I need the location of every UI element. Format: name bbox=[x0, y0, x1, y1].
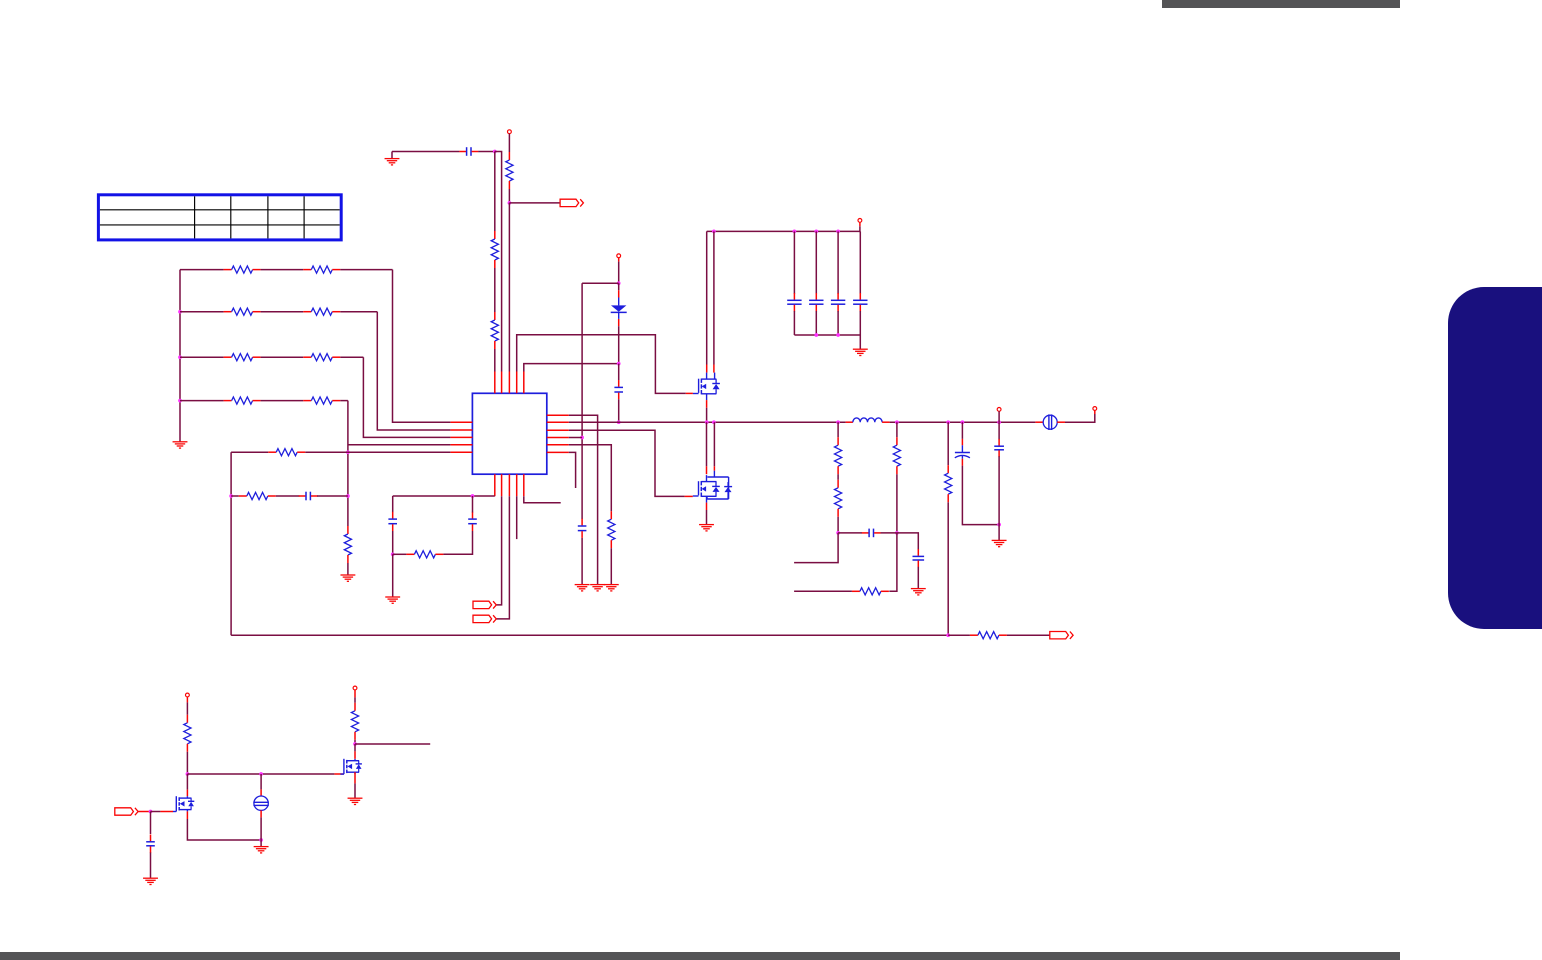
junction bbox=[814, 230, 818, 234]
lead bbox=[618, 258, 620, 262]
off-page connector bbox=[560, 199, 583, 206]
capacitor C1 bbox=[459, 147, 478, 156]
resistor R13a bbox=[224, 397, 261, 404]
current source CS1 bbox=[253, 789, 268, 817]
wire bbox=[582, 282, 619, 284]
wire bbox=[393, 495, 495, 497]
junction bbox=[617, 281, 621, 285]
capacitor C10 bbox=[853, 293, 867, 312]
wire bbox=[998, 411, 1000, 422]
junction bbox=[580, 436, 584, 440]
lead bbox=[685, 495, 693, 497]
wire bbox=[859, 335, 861, 349]
pin bbox=[450, 429, 472, 431]
wire bbox=[1065, 414, 1095, 422]
lead bbox=[1057, 421, 1065, 423]
wire bbox=[392, 554, 394, 597]
wire bbox=[948, 634, 970, 636]
wire bbox=[340, 269, 392, 271]
power terminal bbox=[617, 254, 621, 258]
IC U1 bbox=[472, 393, 546, 474]
wire bbox=[305, 451, 348, 453]
junction bbox=[346, 494, 350, 498]
junction bbox=[946, 420, 950, 424]
wire bbox=[495, 152, 502, 372]
capacitor C11 bbox=[862, 529, 881, 538]
wire bbox=[508, 203, 510, 372]
capacitor C2 bbox=[614, 380, 623, 399]
ground bbox=[992, 540, 1007, 546]
ground bbox=[143, 878, 158, 884]
lead bbox=[859, 222, 861, 226]
lead bbox=[713, 466, 715, 470]
wire bbox=[180, 400, 224, 402]
lead bbox=[706, 503, 708, 510]
capacitor C5 bbox=[388, 512, 397, 531]
ground bbox=[348, 798, 363, 804]
junction bbox=[617, 362, 621, 366]
resistor R11a bbox=[224, 308, 261, 315]
wire bbox=[859, 231, 861, 293]
wire bbox=[896, 474, 898, 533]
top gray bar bbox=[1162, 0, 1400, 8]
lead bbox=[882, 421, 890, 423]
junction bbox=[186, 772, 190, 776]
output terminal bbox=[997, 408, 1001, 412]
wire stub bbox=[524, 496, 561, 503]
resistor R22 bbox=[852, 588, 889, 595]
wire bbox=[340, 311, 377, 313]
junction bbox=[961, 420, 965, 424]
junction bbox=[836, 420, 840, 424]
wire bbox=[569, 437, 582, 439]
wire bbox=[261, 356, 304, 358]
junction bbox=[793, 230, 797, 234]
revision table bbox=[98, 195, 341, 240]
resistor R14 bbox=[344, 526, 351, 563]
pin bbox=[516, 372, 518, 394]
pin bbox=[494, 474, 496, 496]
wire bbox=[713, 231, 715, 364]
junction bbox=[149, 810, 153, 814]
lead bbox=[354, 690, 356, 697]
wire bbox=[494, 349, 496, 372]
bottom gray bar bbox=[0, 952, 1400, 960]
wire bbox=[889, 533, 897, 591]
junction bbox=[712, 230, 716, 234]
ground bbox=[604, 585, 619, 591]
ground bbox=[340, 575, 355, 581]
ground bbox=[575, 585, 590, 591]
wire bbox=[793, 231, 795, 293]
wire bbox=[837, 422, 839, 437]
diode D1 bbox=[611, 298, 627, 319]
pin bbox=[547, 414, 569, 416]
capacitor C12 bbox=[913, 549, 925, 567]
off-page connector bbox=[473, 601, 496, 608]
capacitor C8 bbox=[809, 293, 823, 312]
wire bbox=[961, 422, 963, 439]
ground bbox=[173, 442, 188, 448]
wire bbox=[276, 495, 300, 497]
junction bbox=[346, 450, 350, 454]
junction bbox=[178, 355, 182, 359]
wire bbox=[231, 451, 268, 453]
wire rail bbox=[707, 230, 861, 232]
wire bbox=[837, 311, 839, 335]
lead bbox=[186, 811, 188, 819]
resistor R15 bbox=[268, 449, 305, 456]
pin bbox=[501, 474, 503, 496]
ground bbox=[699, 525, 714, 531]
inductor L1 bbox=[853, 418, 882, 422]
pin bbox=[523, 474, 525, 496]
wire bbox=[838, 532, 862, 534]
junction bbox=[814, 333, 818, 337]
resistor R16 bbox=[239, 492, 276, 499]
lead bbox=[846, 421, 853, 423]
wire bbox=[260, 840, 262, 847]
resistor R11b bbox=[303, 308, 340, 315]
input connector bbox=[115, 808, 138, 815]
wire bbox=[706, 231, 708, 364]
wire rail bbox=[890, 421, 1036, 423]
wire bbox=[150, 853, 152, 879]
pin bbox=[450, 436, 472, 438]
wire bbox=[497, 496, 502, 605]
wire bbox=[363, 357, 450, 437]
junction bbox=[836, 333, 840, 337]
wire bus bbox=[179, 270, 181, 442]
wire bbox=[837, 474, 839, 480]
wire bus bbox=[794, 334, 860, 336]
resistor R12b bbox=[303, 354, 340, 361]
fuse F1 bbox=[1043, 414, 1057, 430]
lead bbox=[618, 319, 620, 326]
wire bbox=[472, 496, 474, 512]
lead bbox=[1035, 421, 1043, 423]
wire bbox=[569, 415, 598, 584]
capacitor C14 bbox=[994, 439, 1004, 457]
capacitor C15 bbox=[146, 835, 155, 854]
pin bbox=[547, 437, 569, 439]
wire bbox=[186, 702, 188, 714]
wire bbox=[706, 422, 708, 466]
wire bbox=[815, 311, 817, 335]
capacitor C4 bbox=[299, 492, 318, 501]
junction bbox=[353, 742, 357, 746]
lead bbox=[618, 290, 620, 297]
resistor R21 bbox=[893, 437, 900, 474]
wire bbox=[494, 268, 496, 312]
lead bbox=[713, 365, 715, 373]
power terminal bbox=[508, 130, 512, 134]
ground bbox=[254, 847, 269, 853]
junction bbox=[836, 230, 840, 234]
wire stub bbox=[516, 496, 518, 539]
pin bbox=[450, 421, 472, 423]
wire bbox=[261, 400, 304, 402]
transistor Q1 bbox=[693, 373, 720, 401]
wire bbox=[151, 811, 161, 813]
off-page connector bbox=[473, 615, 496, 622]
wire bbox=[260, 774, 262, 789]
pin bbox=[508, 372, 510, 394]
resistor R23 bbox=[945, 465, 952, 502]
resistor R20 bbox=[835, 480, 842, 517]
wire bbox=[443, 531, 472, 554]
wire bbox=[478, 151, 495, 153]
wire bbox=[393, 553, 407, 555]
wire bbox=[998, 422, 1000, 439]
wire rail bbox=[231, 634, 948, 636]
ground bbox=[853, 349, 868, 355]
wire bbox=[610, 548, 612, 584]
wire bbox=[180, 311, 224, 313]
resistor R10b bbox=[303, 266, 340, 273]
wire bbox=[392, 151, 459, 153]
junction bbox=[895, 420, 899, 424]
wire rail bbox=[569, 421, 846, 423]
power terminal bbox=[353, 686, 357, 690]
pin bbox=[547, 421, 569, 423]
wire bbox=[962, 466, 999, 525]
resistor R10a bbox=[224, 266, 261, 273]
wire bbox=[260, 817, 262, 840]
capacitor C7 bbox=[787, 293, 801, 312]
junction bbox=[471, 494, 475, 498]
resistor R25 bbox=[184, 715, 191, 752]
wire bbox=[509, 202, 560, 204]
wire bbox=[377, 312, 450, 430]
junction bbox=[997, 523, 1001, 527]
wire stub bbox=[569, 452, 576, 488]
junction bbox=[508, 201, 512, 205]
lead bbox=[686, 392, 693, 394]
lead bbox=[706, 466, 708, 474]
wire bbox=[340, 356, 363, 358]
junction bbox=[391, 552, 395, 556]
wire bbox=[618, 326, 620, 363]
lead bbox=[160, 811, 173, 813]
wire bbox=[231, 495, 239, 497]
wire bbox=[230, 452, 232, 635]
wire bbox=[354, 744, 356, 751]
wire bbox=[392, 496, 394, 512]
wire bbox=[618, 262, 620, 284]
power terminal bbox=[186, 693, 190, 697]
wire bbox=[618, 364, 620, 381]
wire bbox=[187, 819, 261, 840]
pin bbox=[523, 372, 525, 394]
off-page connector bbox=[1050, 632, 1073, 639]
wire bbox=[947, 502, 949, 635]
junction bbox=[705, 420, 709, 424]
wire bbox=[896, 422, 898, 437]
wire bbox=[897, 533, 918, 550]
lead bbox=[138, 811, 150, 813]
wire bbox=[354, 783, 356, 798]
wire bbox=[815, 231, 817, 293]
junction bbox=[895, 531, 899, 535]
junction bbox=[712, 420, 716, 424]
transistor Q3 bbox=[173, 796, 195, 811]
ground bbox=[590, 585, 605, 591]
wire bbox=[317, 495, 348, 497]
lead bbox=[334, 773, 344, 775]
lead bbox=[354, 772, 356, 783]
wire bbox=[837, 231, 839, 293]
wire bbox=[340, 400, 348, 402]
wire bbox=[508, 189, 510, 203]
wire bbox=[354, 697, 356, 702]
resistor R26 bbox=[351, 703, 358, 740]
junction bbox=[229, 494, 233, 498]
junction bbox=[259, 838, 263, 842]
pin bbox=[547, 451, 569, 453]
pin bbox=[450, 451, 472, 453]
resistor R24 bbox=[970, 632, 1007, 639]
lead bbox=[186, 790, 188, 797]
lead bbox=[618, 283, 620, 290]
junction bbox=[259, 772, 263, 776]
resistor R17 bbox=[406, 551, 443, 558]
resistor R3 bbox=[506, 152, 513, 189]
wire bbox=[524, 364, 619, 372]
wire bbox=[494, 152, 496, 232]
wire bbox=[186, 752, 188, 774]
wire bbox=[347, 401, 349, 526]
junction bbox=[836, 531, 840, 535]
wire bbox=[881, 532, 897, 534]
wire bbox=[180, 269, 224, 271]
wire stub bbox=[355, 743, 430, 745]
junction bbox=[997, 420, 1001, 424]
wire bbox=[947, 422, 949, 465]
lead bbox=[354, 751, 356, 758]
wire bbox=[347, 563, 349, 575]
output terminal bbox=[1093, 407, 1097, 411]
lead bbox=[706, 400, 708, 408]
ground bbox=[911, 589, 926, 595]
wire bbox=[187, 773, 334, 775]
pin bbox=[547, 429, 569, 431]
wire bbox=[508, 134, 510, 152]
pin bbox=[547, 444, 569, 446]
pin bbox=[508, 474, 510, 496]
wire bbox=[998, 456, 1000, 540]
wire bbox=[348, 444, 451, 446]
capacitor C9 bbox=[831, 293, 845, 312]
wire bbox=[859, 226, 861, 231]
transistor Q2 bbox=[693, 471, 732, 503]
junction bbox=[493, 150, 497, 154]
wire bbox=[794, 533, 838, 563]
ground bbox=[385, 159, 400, 165]
junction bbox=[617, 420, 621, 424]
wire bbox=[581, 538, 583, 585]
lead bbox=[186, 697, 188, 702]
capacitor C3 bbox=[578, 519, 587, 538]
wire bbox=[186, 774, 188, 790]
wire bbox=[581, 283, 583, 519]
pin bbox=[516, 474, 518, 496]
wire bbox=[569, 430, 685, 496]
right navy tab bbox=[1448, 287, 1542, 629]
junction bbox=[178, 399, 182, 403]
wire bbox=[392, 531, 394, 554]
wire bbox=[859, 311, 861, 335]
ground bbox=[385, 597, 400, 603]
resistor R2 bbox=[491, 312, 498, 349]
wire bbox=[354, 740, 356, 744]
wire bbox=[180, 356, 224, 358]
resistor R1 bbox=[491, 231, 498, 268]
wire bbox=[917, 567, 919, 589]
junction bbox=[178, 310, 182, 314]
wire bbox=[713, 422, 715, 466]
wire bbox=[348, 451, 451, 453]
pin bbox=[494, 372, 496, 394]
wire bbox=[569, 445, 612, 512]
wire bbox=[261, 269, 304, 271]
capacitor C6 bbox=[468, 512, 477, 531]
transistor Q4 bbox=[340, 759, 362, 774]
wire stub bbox=[794, 590, 852, 592]
resistor R13b bbox=[303, 397, 340, 404]
wire bbox=[150, 812, 152, 835]
wire bbox=[517, 335, 686, 394]
power terminal bbox=[858, 219, 862, 223]
wire bbox=[497, 496, 510, 619]
wire bbox=[1007, 634, 1050, 636]
wire bbox=[793, 311, 795, 335]
pin bbox=[501, 372, 503, 394]
lead bbox=[706, 365, 708, 373]
resistor R12a bbox=[224, 354, 261, 361]
resistor R18 bbox=[608, 511, 615, 548]
wire bbox=[393, 270, 451, 423]
wire bbox=[261, 311, 304, 313]
resistor R19 bbox=[835, 437, 842, 474]
wire bbox=[618, 399, 620, 422]
junction bbox=[946, 633, 950, 637]
lead bbox=[1094, 410, 1096, 414]
wire bbox=[391, 152, 393, 159]
polarized capacitor C13 bbox=[955, 439, 970, 466]
wire bbox=[837, 517, 839, 533]
wire bbox=[706, 510, 708, 525]
wire bbox=[706, 408, 708, 422]
pin bbox=[450, 444, 472, 446]
